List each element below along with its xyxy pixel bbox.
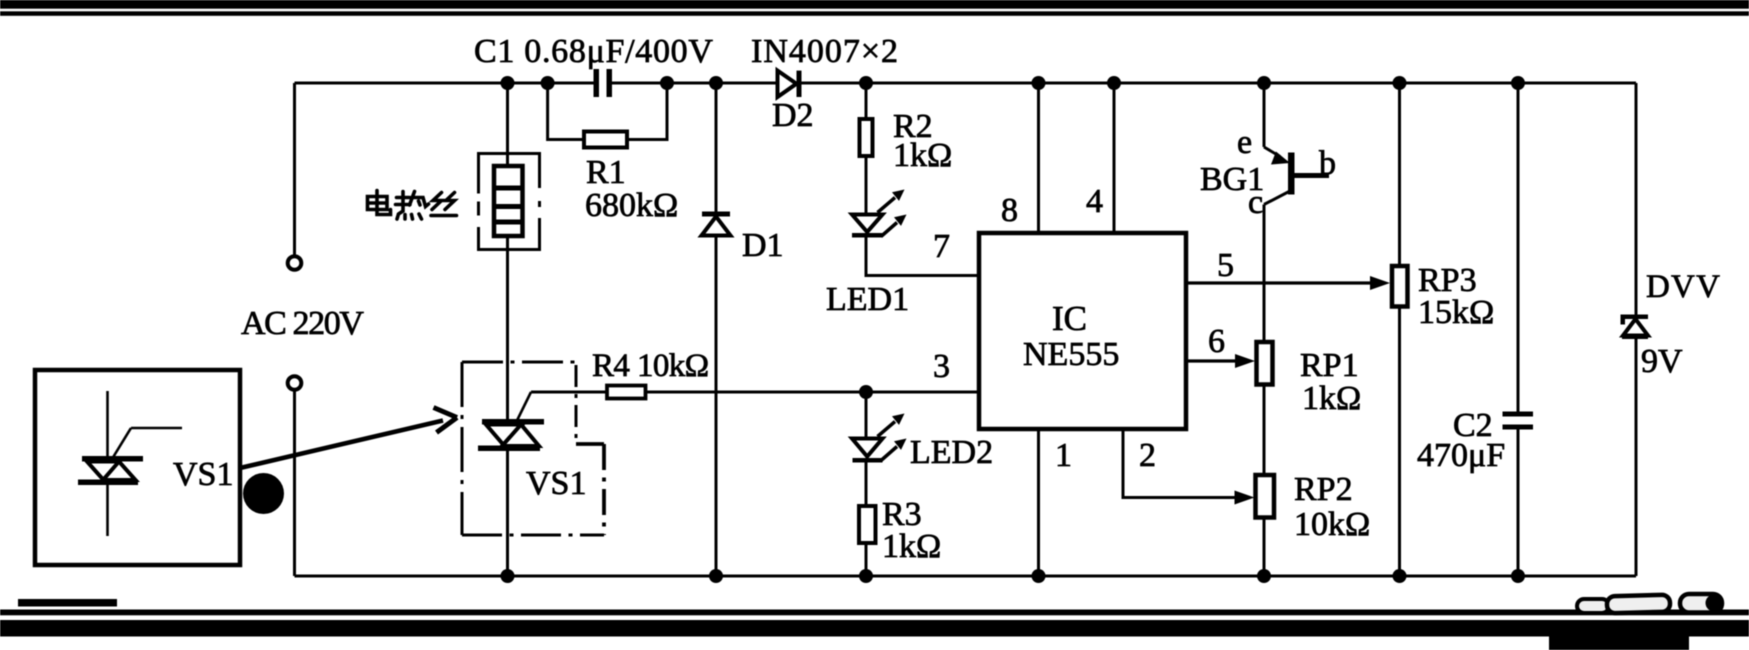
transistor BG1 [1264, 83, 1329, 342]
IC U1 NE555 [979, 233, 1186, 429]
svg-text:VS1: VS1 [173, 456, 233, 493]
svg-text:BG1: BG1 [1200, 161, 1264, 198]
wire pin 4 [1113, 83, 1116, 233]
svg-text:4: 4 [1086, 183, 1103, 220]
wire C2 column [1517, 83, 1520, 576]
node bottom heater [501, 569, 515, 583]
paper scrap artifacts bottom right [1577, 594, 1723, 613]
diode D2 [778, 71, 802, 97]
svg-text:470μF: 470μF [1417, 437, 1505, 474]
svg-text:VS1: VS1 [526, 465, 586, 502]
svg-text:LED2: LED2 [910, 434, 993, 471]
terminal lower AC [288, 376, 302, 390]
svg-text:RP1: RP1 [1300, 347, 1359, 384]
sensor dash-dot box [462, 362, 604, 535]
wire triac to bottom [506, 449, 509, 576]
svg-text:IC: IC [1052, 299, 1087, 338]
wire R4 row [531, 391, 979, 394]
node top heater [501, 76, 515, 90]
node top pin4 [1107, 76, 1121, 90]
wire RP2 to bottom [1263, 518, 1266, 577]
resistor R1 [584, 132, 627, 148]
potentiometer RP2 [1256, 475, 1275, 518]
resistor R3 [859, 506, 876, 543]
resistor R4 [607, 386, 646, 399]
svg-text:RP2: RP2 [1294, 471, 1353, 508]
node bottom RP2 [1257, 569, 1271, 583]
svg-text:1kΩ: 1kΩ [1302, 380, 1361, 417]
svg-text:10kΩ: 10kΩ [1294, 506, 1370, 543]
LED2 [852, 392, 907, 463]
wire heater to triac [506, 236, 509, 421]
LED1 [852, 190, 907, 238]
svg-text:680kΩ: 680kΩ [585, 187, 678, 224]
node bottom pin1 [1032, 569, 1046, 583]
svg-text:DVV: DVV [1646, 269, 1721, 305]
wire D1 column [715, 83, 718, 576]
svg-text:e: e [1237, 124, 1252, 161]
node top BG1 [1257, 76, 1271, 90]
node top pin8 [1032, 76, 1046, 90]
wire LED2 to R3 [865, 463, 868, 507]
svg-text:R1: R1 [586, 154, 626, 191]
svg-text:C1 0.68μF/400V: C1 0.68μF/400V [474, 33, 714, 70]
svg-text:D1: D1 [742, 227, 784, 264]
wire pin 2 [1123, 429, 1240, 498]
node top R1 right [660, 76, 674, 90]
node bottom RP3 [1393, 569, 1407, 583]
node 3 [859, 385, 873, 399]
svg-text:LED1: LED1 [826, 281, 909, 318]
svg-text:9V: 9V [1641, 343, 1683, 380]
svg-text:D2: D2 [772, 97, 814, 134]
svg-text:7: 7 [933, 228, 950, 265]
svg-text:3: 3 [933, 348, 950, 385]
svg-text:b: b [1319, 145, 1336, 182]
wire RP1 to RP2 [1263, 385, 1266, 476]
wire R1 loop [548, 83, 667, 140]
potentiometer RP1 [1257, 342, 1273, 385]
node top RP3 [1393, 76, 1407, 90]
capacitor C2 [1503, 412, 1534, 430]
svg-text:NE555: NE555 [1023, 336, 1119, 373]
triac VS1 appliance box [35, 370, 240, 565]
svg-text:R4 10kΩ: R4 10kΩ [592, 348, 709, 384]
node bottom D1 [709, 569, 723, 583]
wire left column upper [293, 83, 296, 256]
node top R1 left [541, 76, 555, 90]
terminal upper AC [288, 256, 302, 270]
wire pin 5 with arrow [1186, 276, 1390, 290]
wire left column lower [293, 391, 296, 577]
wire RP3 column [1398, 83, 1401, 576]
node top D1 [709, 76, 723, 90]
svg-text:6: 6 [1208, 323, 1225, 360]
wire pin 1 [1037, 429, 1040, 576]
diode D1 [702, 212, 731, 236]
svg-text:15kΩ: 15kΩ [1418, 294, 1494, 331]
wire heater column top [506, 83, 509, 166]
triac VS1 sensor [478, 392, 544, 451]
resistor R2 [860, 119, 873, 156]
wire R2 column [866, 83, 979, 276]
svg-text:IN4007×2: IN4007×2 [751, 33, 899, 70]
wire pin 6 with arrow [1186, 354, 1255, 368]
capacitor C1 [594, 69, 613, 97]
heater element resistor [494, 166, 523, 236]
node bottom C2 [1511, 569, 1525, 583]
node bottom R3 [859, 569, 873, 583]
svg-text:8: 8 [1001, 192, 1018, 229]
wire top rail [295, 82, 1637, 85]
node top R2 [859, 76, 873, 90]
heater enclosure box [477, 152, 541, 251]
svg-text:AC 220V: AC 220V [241, 305, 364, 342]
zener diode DVV [1621, 315, 1649, 340]
triac VS1 (inside box) [78, 391, 182, 536]
arrow pin 2 to RP2 [1235, 491, 1255, 505]
pointer arrow [240, 408, 457, 469]
wire right edge [1635, 83, 1638, 576]
pointer dot [243, 473, 284, 514]
label dianresi (heating wire) [368, 191, 457, 220]
svg-text:5: 5 [1217, 247, 1234, 284]
potentiometer RP3 [1392, 266, 1408, 307]
wire bottom rail [295, 575, 1637, 578]
svg-text:1: 1 [1055, 437, 1072, 474]
svg-text:1kΩ: 1kΩ [893, 137, 952, 174]
wire R3 to bottom [865, 543, 868, 576]
svg-text:1kΩ: 1kΩ [882, 528, 941, 565]
wire pin 8 [1037, 83, 1040, 233]
svg-text:2: 2 [1139, 437, 1156, 474]
node top C2 [1511, 76, 1525, 90]
